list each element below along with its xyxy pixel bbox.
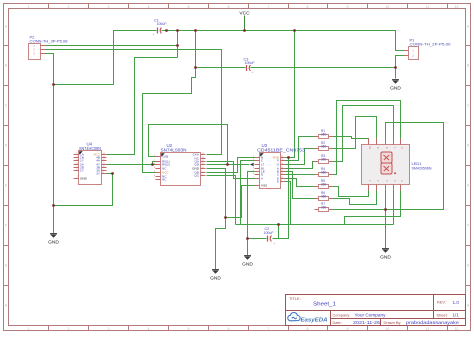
svg-text:E: E [277, 180, 279, 184]
wire U3 B out to R6 [286, 172, 315, 199]
svg-text:2: 2 [68, 327, 70, 331]
wire LED bottom pin 5 to bus [345, 191, 401, 225]
svg-text:Sheet:: Sheet: [437, 312, 448, 317]
svg-text:2021-11-26: 2021-11-26 [353, 320, 381, 325]
svg-text:100uF: 100uF [264, 231, 275, 235]
svg-text:B: B [5, 64, 7, 68]
resistor R5 360 [315, 179, 333, 188]
svg-text:360: 360 [321, 195, 327, 199]
svg-text:8: 8 [307, 327, 309, 331]
wire U3 VSS to U2 GND net [226, 186, 255, 218]
wire U2 GND pin to ground GND2 [207, 169, 226, 270]
wire C3 right lead to P1 pin2 and GND5 [251, 56, 404, 79]
wire U3 LE to ground node GND3 [248, 172, 255, 256]
wire VCC rail from C1 to P1 pin1 [162, 31, 404, 51]
svg-text:NC: NC [162, 178, 167, 182]
svg-text:360: 360 [321, 171, 327, 175]
svg-text:12: 12 [455, 5, 459, 9]
svg-text:10: 10 [386, 5, 390, 9]
wire U2 QA to U3 A pin [207, 162, 255, 179]
counter U2 SN74LS93N [154, 143, 206, 185]
svg-text:CD4511BE_CN9753: CD4511BE_CN9753 [257, 148, 306, 153]
svg-text:4: 4 [148, 5, 150, 9]
svg-text:12: 12 [455, 327, 459, 331]
svg-text:CONN-TH_2P-P5.00: CONN-TH_2P-P5.00 [410, 42, 452, 47]
wire R4 to LED pin 6 [328, 101, 401, 175]
svg-text:360: 360 [321, 183, 327, 187]
capacitor C1 100uF polarized [152, 18, 167, 37]
svg-text:6: 6 [228, 5, 230, 9]
wire U3 D out to R5 [286, 179, 315, 187]
svg-text:GND: GND [210, 275, 221, 281]
svg-text:1/1: 1/1 [453, 313, 460, 318]
resistor R7 360 [315, 202, 333, 211]
svg-text:SM420506N: SM420506N [412, 166, 432, 170]
wire P2 pin1 up to VCC rail [46, 31, 178, 58]
svg-text:5: 5 [188, 5, 190, 9]
wire bottom bus to U3 E pin and LED pin 4 [236, 182, 394, 225]
svg-text:SN74LS93N: SN74LS93N [161, 147, 187, 152]
svg-text:360: 360 [321, 158, 327, 162]
svg-text:1: 1 [28, 5, 30, 9]
connector P2 CONN-TH_3P-P5.08 [29, 34, 68, 59]
wire R5 to LED bottom pin 1 [333, 187, 369, 197]
decoder U3 CD4511BE_CN9753 [250, 143, 306, 188]
svg-text:1.0: 1.0 [453, 300, 460, 305]
svg-text:3: 3 [108, 327, 110, 331]
svg-text:Your Company: Your Company [355, 313, 387, 318]
resistor R2 360 [315, 141, 333, 150]
svg-text:1: 1 [28, 327, 30, 331]
ground GND2 [210, 270, 221, 282]
capacitor C3 100uF [244, 58, 256, 75]
svg-text:E: E [467, 184, 469, 188]
svg-text:7: 7 [268, 5, 270, 9]
svg-text:10: 10 [386, 327, 390, 331]
connector P1 CONN-TH_2P-P5.00 [404, 37, 452, 59]
wire U2 QC down to bottom bus [207, 176, 236, 225]
svg-text:GND: GND [48, 239, 59, 245]
wire U2 QB to U3 B pin [207, 158, 255, 173]
wire C2 left lead [248, 238, 267, 240]
svg-text:5: 5 [188, 327, 190, 331]
svg-text:Drawn By:: Drawn By: [384, 320, 402, 325]
LED1 SM420506N seven-segment display [362, 139, 432, 191]
svg-text:100uF: 100uF [245, 61, 256, 65]
svg-text:Date:: Date: [333, 320, 342, 325]
svg-text:9: 9 [347, 327, 349, 331]
svg-text:360: 360 [321, 206, 327, 210]
wire C3 left lead [196, 67, 246, 69]
wire bus branch to C2 positive lead [278, 225, 280, 239]
wire R3 to LED pin 7 [328, 106, 394, 162]
svg-text:GND: GND [380, 254, 391, 260]
svg-text:CKB: CKB [162, 155, 168, 159]
wire QD loop back to U2 CKB pin [149, 125, 228, 165]
svg-text:3Y: 3Y [96, 172, 100, 176]
svg-text:F: F [5, 224, 7, 228]
ground GND5 [390, 80, 401, 92]
svg-text:8: 8 [307, 5, 309, 9]
wire U3 G to R2 [286, 149, 315, 165]
svg-text:7: 7 [268, 327, 270, 331]
wire U2 QD to U3 BI pin [207, 164, 250, 166]
svg-text:E: E [5, 184, 7, 188]
title block [286, 295, 466, 326]
svg-text:Sheet_1: Sheet_1 [313, 302, 336, 308]
ground GND3 [242, 256, 253, 268]
svg-text:GND: GND [390, 85, 401, 91]
ground GND1 [48, 234, 59, 246]
svg-text:VSS: VSS [261, 184, 267, 188]
svg-text:LED1: LED1 [412, 161, 423, 166]
svg-text:360: 360 [321, 145, 327, 149]
svg-text:GND: GND [242, 261, 253, 267]
svg-text:SN74HC08N: SN74HC08N [79, 146, 101, 151]
resistor R6 360 [315, 191, 333, 200]
svg-text:prabodadassanayake: prabodadassanayake [406, 320, 460, 325]
resistor R3 360 [315, 154, 333, 163]
wire VCC rail drop to C3 and U2 VCC pin [143, 31, 196, 173]
wire R6 to LED bottom pin 2 [333, 191, 377, 205]
svg-text:GND: GND [80, 177, 88, 181]
svg-text:3: 3 [108, 5, 110, 9]
resistor R4 360 [315, 167, 333, 176]
svg-text:F: F [467, 224, 469, 228]
svg-text:6: 6 [228, 327, 230, 331]
wire U3 F to R1 [286, 137, 315, 161]
wire U3 C out to R4 [286, 174, 315, 176]
svg-text:11: 11 [426, 327, 430, 331]
svg-text:REV:: REV: [437, 300, 446, 305]
wire VCC rail branch to U4 VCC pin [107, 58, 178, 155]
resistor R1 360 [315, 129, 333, 138]
svg-text:VCC: VCC [239, 10, 250, 16]
wire LED bottom pin 3 to ground GND4 [385, 191, 387, 249]
wire U3 C pin riser to bottom bus [241, 161, 255, 225]
node junction dots [52, 83, 55, 86]
EasyEDA logo [288, 313, 300, 321]
wire U4 4Y to U2 R0 pins [107, 162, 156, 165]
svg-text:100uF: 100uF [157, 22, 168, 26]
svg-text:360: 360 [321, 133, 327, 137]
ground GND4 [380, 249, 391, 261]
wire branch down to ground GND1 [53, 85, 55, 234]
svg-text:Company:: Company: [333, 312, 351, 317]
wire U4 3Y down-left to ground node [54, 174, 113, 206]
wire C2 right lead up to VDD node [273, 158, 289, 239]
svg-text:2: 2 [68, 5, 70, 9]
svg-text:B: B [467, 64, 469, 68]
svg-text:10: 10 [368, 146, 372, 150]
wire R7 row to right riser and LED pin 8 [328, 123, 444, 210]
wire R2 to LED pin 9 [328, 117, 377, 149]
capacitor C2 100uF polarized [264, 227, 277, 246]
svg-text:CONN-TH_3P-P5.08: CONN-TH_3P-P5.08 [30, 39, 68, 44]
wire P2 pin2 to U2 CKA pin [46, 50, 222, 155]
svg-text:EasyEDA: EasyEDA [301, 317, 328, 323]
wire VCC symbol stem [244, 16, 246, 31]
wire VCC rail drop to U3 VDD pin [286, 31, 295, 158]
svg-text:QC: QC [194, 174, 199, 178]
wire P2 pin3 to VCC rail [46, 31, 157, 85]
svg-text:9: 9 [347, 5, 349, 9]
svg-text:4: 4 [148, 327, 150, 331]
svg-text:11: 11 [426, 5, 430, 9]
wire R1 to LED pin 10 [328, 137, 369, 145]
wire U3 A out to R3 [286, 162, 315, 169]
gate U4 SN74HC08N [74, 141, 107, 184]
svg-text:2Y: 2Y [80, 169, 84, 173]
svg-text:TITLE:: TITLE: [289, 296, 301, 301]
